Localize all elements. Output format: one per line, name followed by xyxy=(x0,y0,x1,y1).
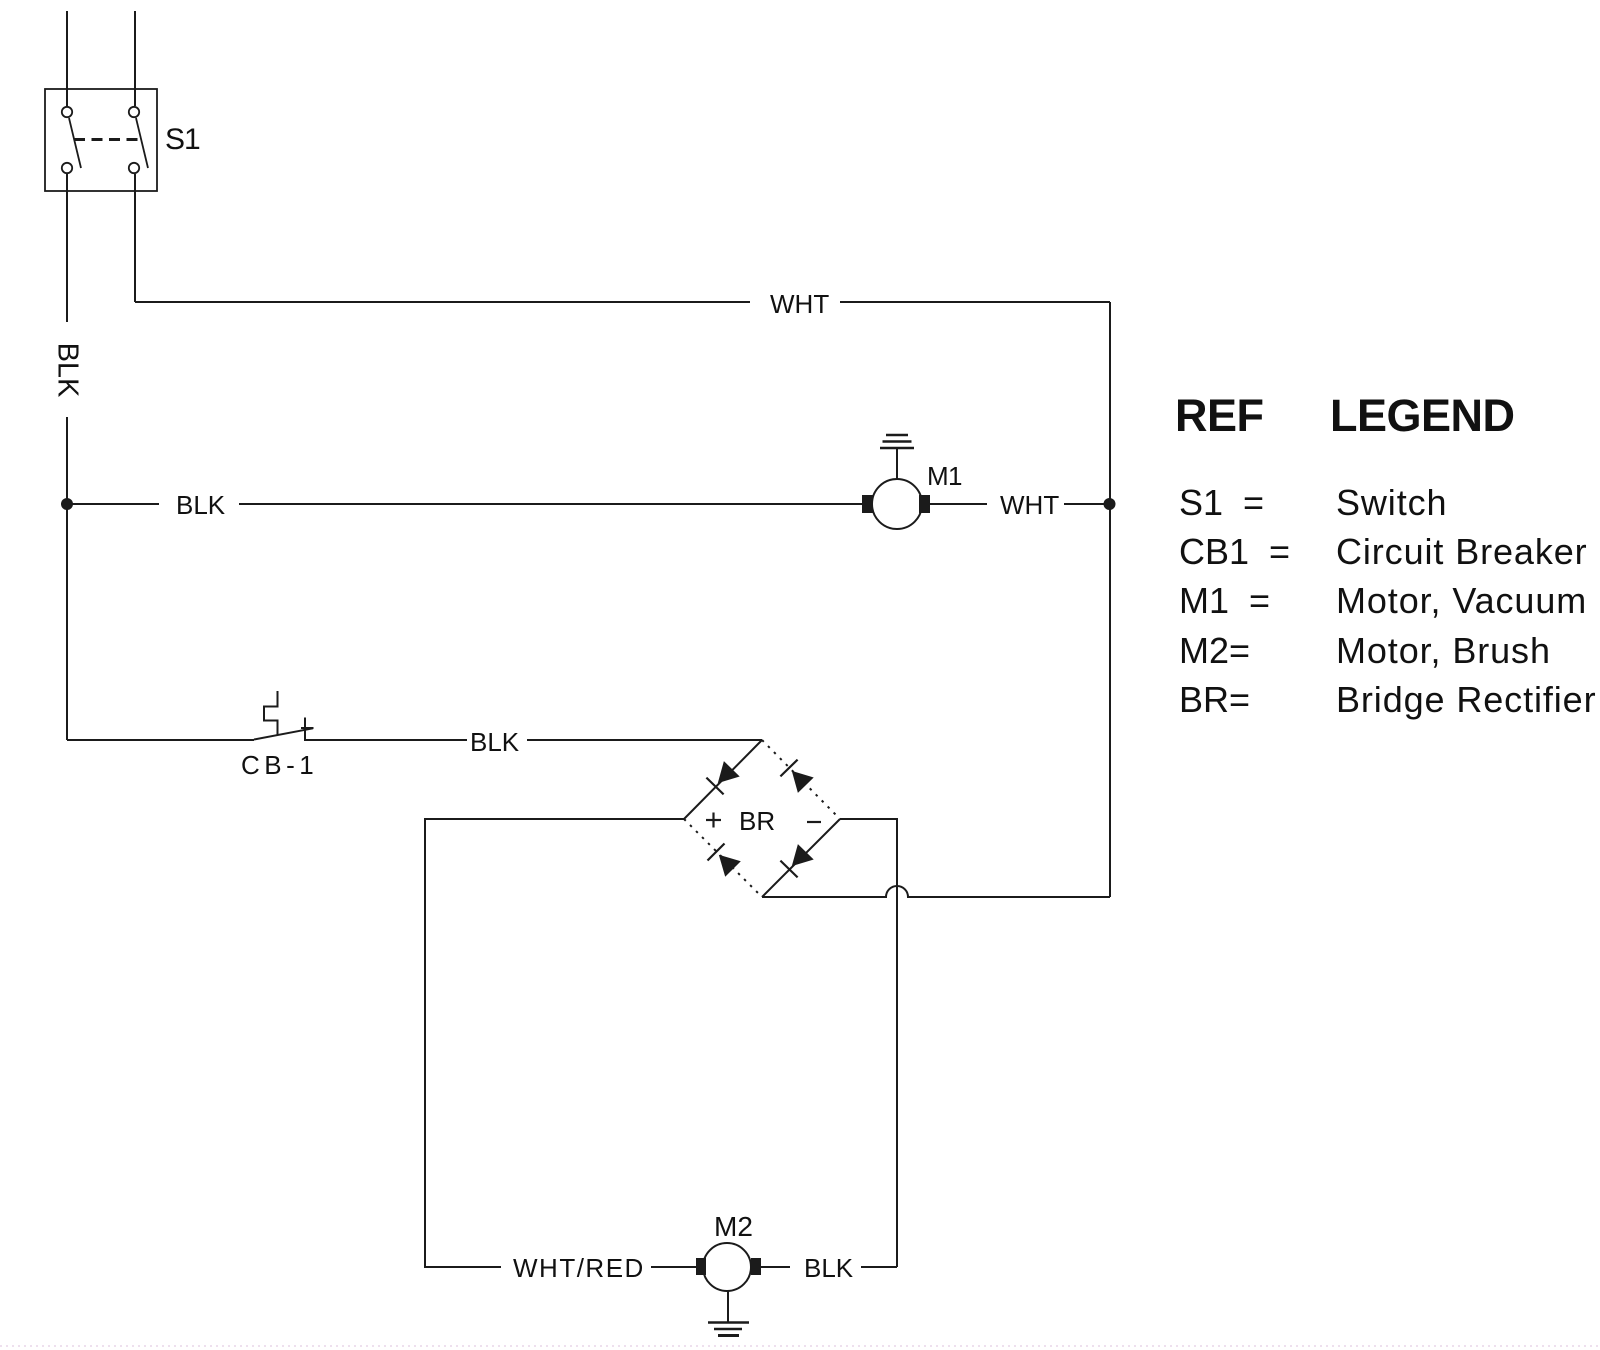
node B junction right xyxy=(1104,498,1116,510)
svg-text:BLK: BLK xyxy=(804,1253,854,1283)
plus terminal mark xyxy=(706,813,721,828)
wire WHT top run after label to right corner xyxy=(840,301,1110,303)
svg-text:WHT: WHT xyxy=(1000,490,1059,520)
wire BLK label to right drop xyxy=(861,1266,897,1268)
wire top-right supply into S1 xyxy=(134,11,136,106)
motor M1 xyxy=(862,479,930,529)
svg-text:BLK: BLK xyxy=(176,490,226,520)
wire node to M1 BLK segment xyxy=(71,503,159,505)
diode D2 top-right xyxy=(780,760,813,793)
wire BLK left drop from S1 xyxy=(66,174,68,322)
svg-text:Motor, Vacuum: Motor, Vacuum xyxy=(1336,580,1587,621)
circuit breaker CB-1 xyxy=(254,691,314,741)
wire CB-1 to BLK label xyxy=(305,739,467,741)
svg-text:CB-1: CB-1 xyxy=(241,750,318,780)
wire M2 to BLK label xyxy=(761,1266,790,1268)
wire BR bottom AC run with hop xyxy=(762,886,1110,897)
diode D3 bottom-left xyxy=(708,844,741,877)
svg-text:Circuit Breaker: Circuit Breaker xyxy=(1336,531,1588,572)
wire lower-left run to CB-1 xyxy=(67,739,254,741)
diode D4 bottom-right xyxy=(780,844,813,877)
svg-text:S1 =: S1 = xyxy=(1179,482,1264,523)
bridge rectifier BR xyxy=(684,740,840,897)
motor M2 xyxy=(696,1243,761,1291)
svg-text:M1 =: M1 = xyxy=(1179,580,1270,621)
svg-text:M2=: M2= xyxy=(1179,630,1250,671)
svg-text:CB1 =: CB1 = xyxy=(1179,531,1290,572)
wire M1 to WHT label xyxy=(930,503,987,505)
wire WHT drop from S1 right xyxy=(134,174,136,302)
svg-text:BLK: BLK xyxy=(470,727,520,757)
svg-text:S1: S1 xyxy=(165,123,201,156)
svg-text:M2: M2 xyxy=(714,1211,753,1242)
switch S1 xyxy=(45,89,157,191)
wire BR right vertex to right drop xyxy=(840,819,897,1267)
wire BLK label to M1 xyxy=(239,503,862,505)
svg-text:BR: BR xyxy=(739,806,775,836)
minus terminal mark xyxy=(807,821,821,823)
wire WHT right vertical xyxy=(1109,302,1111,897)
svg-text:BLK: BLK xyxy=(52,343,84,398)
svg-text:Switch: Switch xyxy=(1336,482,1447,523)
svg-text:REF: REF xyxy=(1175,390,1264,441)
wire BLK left drop continues to CB-1 corner xyxy=(66,417,68,740)
ground below M2 xyxy=(708,1291,749,1336)
wire WHT/RED label to M2 xyxy=(651,1266,696,1268)
wire WHT label to node xyxy=(1064,503,1110,505)
wire BLK label to bridge top xyxy=(527,739,762,741)
svg-text:WHT/RED: WHT/RED xyxy=(513,1253,645,1283)
wire BR left vertex to loop xyxy=(425,819,684,1267)
svg-text:Motor, Brush: Motor, Brush xyxy=(1336,630,1551,671)
wire top-left supply into S1 xyxy=(66,11,68,106)
diode D1 top-left xyxy=(706,761,739,794)
ground above M1 xyxy=(880,435,914,480)
svg-text:LEGEND: LEGEND xyxy=(1330,390,1515,441)
svg-text:BR=: BR= xyxy=(1179,679,1250,720)
wire WHT top run xyxy=(135,301,750,303)
svg-text:Bridge Rectifier: Bridge Rectifier xyxy=(1336,679,1597,720)
svg-text:M1: M1 xyxy=(927,461,962,491)
bottom faint scan line xyxy=(0,1345,1600,1347)
svg-text:WHT: WHT xyxy=(770,289,829,319)
node A junction left xyxy=(61,498,73,510)
